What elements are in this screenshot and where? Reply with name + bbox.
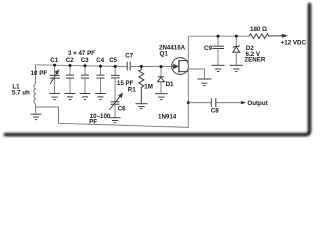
resistor 180 ohm [249, 34, 282, 39]
node dot D1 [160, 65, 163, 68]
svg-text:5.7 uh: 5.7 uh [12, 90, 30, 97]
node dot C3 [84, 64, 87, 67]
capacitor C9 stem [217, 36, 219, 46]
ground below C2 [65, 94, 76, 100]
wire: output node to C8 [188, 102, 211, 104]
diode D1 1N914 [158, 66, 165, 93]
node dot C2 [69, 64, 72, 67]
ground below C9 [211, 65, 224, 71]
capacitor C7 plates [127, 62, 130, 71]
ground below D2 [230, 65, 243, 71]
wire: source down to output node [187, 72, 189, 103]
ground below L1 [31, 114, 42, 119]
svg-text:PF: PF [89, 118, 97, 125]
zener diode D2 [233, 36, 240, 65]
svg-text:C8: C8 [211, 108, 219, 115]
svg-text:R1: R1 [128, 87, 136, 94]
capacitor C5 (15 PF) stem [114, 66, 116, 75]
svg-text:Output: Output [247, 100, 267, 107]
ground below C6 [110, 118, 121, 123]
svg-text:1M: 1M [144, 83, 153, 90]
svg-text:C9: C9 [204, 45, 212, 52]
wire: vertical through transistor tangent [187, 61, 189, 72]
wire: C9 to ground [217, 49, 219, 65]
svg-text:C3: C3 [81, 57, 89, 64]
capacitor C8 plates [211, 98, 216, 107]
wire: C2 to ground [69, 78, 71, 93]
capacitor C6 (10-100 PF variable) plates [111, 102, 120, 104]
node dot C4 [99, 65, 102, 68]
svg-text:C5: C5 [109, 57, 117, 64]
node dot R1 [140, 65, 143, 68]
wire: C3 to ground [84, 78, 86, 93]
svg-text:C6: C6 [118, 106, 126, 113]
capacitor C3 stem [84, 66, 86, 75]
+12 VDC arrow [282, 34, 288, 38]
capacitor C5 plates [111, 75, 120, 78]
node dot D2 [235, 35, 238, 38]
node dot C1 [53, 64, 56, 67]
capacitor C4 stem [100, 66, 102, 75]
output arrow [241, 101, 246, 104]
ground below D1 [155, 94, 168, 100]
wire: C5 to C6 [114, 78, 116, 102]
ground below C3 [80, 94, 91, 100]
svg-text:10 PF: 10 PF [31, 70, 48, 77]
capacitor C1 plates [50, 75, 60, 78]
transistor Q1 2N4416A [172, 58, 189, 75]
wire: +12V top rail [188, 35, 249, 37]
node dot output [187, 101, 190, 104]
svg-text:1N914: 1N914 [158, 114, 177, 121]
wire: left vertical from rail to L1 [35, 65, 37, 84]
wire: L1 tap to bottom rail [36, 103, 189, 128]
capacitor C2 plates [66, 75, 74, 78]
frame drop shadow (bottom + right) [6, 5, 310, 135]
svg-text:D1: D1 [166, 81, 174, 88]
capacitor C6 arrow [109, 94, 122, 111]
svg-text:3 × 47 PF: 3 × 47 PF [68, 50, 95, 57]
svg-text:Q1: Q1 [160, 51, 169, 58]
inductor L1 [34, 84, 36, 104]
wire: C8 to output arrow [216, 102, 241, 104]
wire: C6 to ground [114, 104, 116, 117]
svg-text:ZENER: ZENER [244, 57, 266, 64]
svg-text:C4: C4 [96, 57, 104, 64]
capacitor C2 stem [69, 66, 71, 75]
wire: top tank rail [36, 65, 128, 67]
node dot C9 [217, 35, 220, 38]
ground below C1 [49, 94, 60, 100]
svg-text:C7: C7 [125, 53, 133, 60]
svg-text:+12 VDC: +12 VDC [281, 39, 307, 46]
wire: C4 to ground [100, 78, 102, 93]
wire: L1 bottom to ground [35, 104, 37, 114]
wire: gate rail from C7 to Q1 [130, 65, 172, 67]
wire: C1 to ground [54, 78, 56, 93]
resistor R1 1M [139, 66, 144, 103]
ground at Q1 source stub [197, 79, 211, 86]
capacitor C1 arrow [50, 70, 58, 84]
svg-text:C1: C1 [50, 57, 58, 64]
capacitor C9 plates [212, 46, 224, 48]
capacitor C1 (10 PF variable) stem [54, 65, 56, 75]
svg-text:C2: C2 [66, 57, 74, 64]
capacitor C3 plates [81, 75, 89, 78]
node dot C5 [114, 65, 117, 68]
svg-text:180 Ω: 180 Ω [250, 26, 267, 33]
ground below C4 [95, 94, 106, 100]
ground below R1 [136, 104, 148, 109]
wire: source stub to ground [188, 69, 204, 79]
wire: drain up to +12 rail [187, 36, 189, 60]
capacitor C4 plates [97, 75, 105, 78]
